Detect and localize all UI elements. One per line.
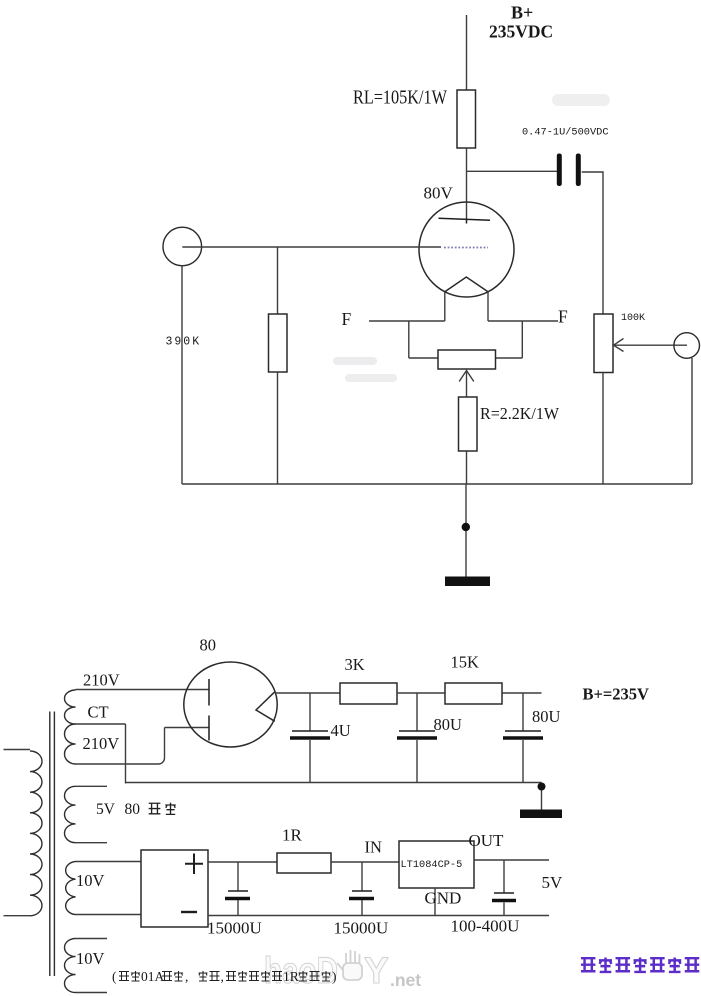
- wire 100-400U cap top: [503, 860, 505, 893]
- ground top section: [445, 577, 490, 587]
- capacitor C4 80U plate bottom: [503, 736, 543, 740]
- svg-text:80V: 80V: [424, 184, 454, 203]
- resistor R3 3K: [340, 683, 397, 704]
- wire F left: [369, 320, 445, 322]
- wire input terminal down: [181, 266, 183, 484]
- capacitor C1 0.47-1U plate left: [557, 154, 562, 187]
- svg-text:R=2.2K/1W: R=2.2K/1W: [480, 404, 560, 423]
- bridge plus sign: [185, 854, 203, 875]
- capacitor C5 15000U plate top: [228, 890, 248, 892]
- wire 15000U cap1 top: [237, 862, 239, 891]
- svg-text:01A: 01A: [141, 969, 165, 984]
- svg-text:80U: 80U: [434, 715, 463, 734]
- wire ground bus top section: [182, 483, 692, 485]
- svg-text:B+=235V: B+=235V: [583, 685, 650, 704]
- capacitor C3 80U plate bottom: [397, 736, 437, 740]
- wire 390K bottom: [277, 372, 279, 484]
- wiper arrow of 100K pot: [614, 339, 624, 352]
- faint smudge 1: [552, 94, 610, 106]
- rectifier V2 filament: [256, 692, 275, 722]
- transformer T1 primary winding: [30, 751, 42, 916]
- wire bus to ground 2: [541, 783, 543, 811]
- bridge minus sign: [181, 911, 197, 913]
- resistor RL1 105K/1W: [457, 90, 476, 148]
- wire filament leg right: [487, 292, 489, 321]
- capacitor C4 80U plate top: [505, 730, 541, 732]
- resistor R5 1R: [277, 853, 331, 873]
- wire 3K to 15K: [397, 692, 445, 694]
- capacitor C7 100-400U plate bottom: [492, 899, 516, 902]
- wire plate to coupling cap: [467, 170, 558, 172]
- svg-text:3K: 3K: [345, 655, 365, 674]
- svg-text:.net: .net: [390, 970, 421, 990]
- wire wiper to R: [466, 372, 468, 398]
- wire RL to plate: [466, 148, 468, 220]
- faint smudge 2: [333, 357, 377, 365]
- capacitor C7 100-400U plate top: [494, 892, 514, 894]
- watermark haoDIY.net: [264, 950, 421, 991]
- wire HV ground bus: [126, 782, 542, 784]
- capacitor C2 4U plate top: [292, 730, 328, 732]
- wire 15000U cap2 top: [361, 862, 363, 891]
- svg-text:5V: 5V: [96, 801, 116, 818]
- wire 5V lead top: [76, 785, 108, 787]
- wire grid input: [182, 246, 441, 248]
- potentiometer RH hum balance: [438, 350, 496, 369]
- svg-text:1R: 1R: [283, 969, 299, 984]
- site name purple: [581, 957, 699, 972]
- wire 4U cap bottom: [309, 740, 311, 783]
- svg-text:390K: 390K: [166, 336, 202, 349]
- regulator U1 LT1084CP-5: [399, 841, 474, 888]
- wire 80U cap2 top: [522, 693, 524, 731]
- wire B+ feed: [466, 15, 468, 90]
- wire 15K to B+: [502, 692, 542, 694]
- input terminal J1: [163, 227, 202, 266]
- svg-text:CT: CT: [88, 703, 109, 722]
- wire 210V top to plate: [76, 689, 210, 691]
- wire CT lead: [76, 723, 126, 725]
- svg-text:235VDC: 235VDC: [489, 22, 553, 42]
- svg-text:): ): [332, 969, 337, 984]
- svg-text:IN: IN: [365, 838, 382, 857]
- svg-text:15000U: 15000U: [207, 919, 262, 938]
- wire output terminal down: [691, 358, 693, 484]
- wire filament leg left: [444, 292, 446, 321]
- transformer T1 10V winding 1: [66, 862, 76, 915]
- wire 210V bottom lead: [76, 758, 165, 764]
- transformer T1 HV winding lower half: [65, 724, 76, 764]
- svg-text:10V: 10V: [76, 949, 105, 968]
- capacitor C6 15000U plate bottom: [349, 897, 374, 900]
- ground HV section: [520, 810, 562, 819]
- svg-text:10V: 10V: [76, 871, 105, 890]
- resistor R2 2.2K/1W: [459, 397, 478, 451]
- wire bus to ground: [465, 484, 467, 577]
- capacitor C5 15000U plate bottom: [225, 897, 250, 900]
- wire bridge output to 1R: [208, 861, 277, 863]
- wire to lower plate: [165, 727, 210, 729]
- svg-text:haoD: haoD: [264, 950, 338, 991]
- wire cap to pot: [582, 172, 603, 314]
- svg-text:0.47-1U/500VDC: 0.47-1U/500VDC: [522, 127, 609, 139]
- transformer T1 core line 2: [53, 712, 55, 977]
- wire 10V lead bottom to bridge: [76, 914, 142, 916]
- output terminal J2: [674, 333, 700, 359]
- wire 100-400U cap bottom: [503, 903, 505, 916]
- svg-text:Y: Y: [364, 950, 389, 991]
- svg-text:80U: 80U: [532, 707, 561, 726]
- svg-text:210V: 210V: [83, 734, 120, 753]
- wire 4U cap top: [309, 693, 311, 731]
- svg-text:100K: 100K: [621, 313, 645, 324]
- potentiometer RP1 100K: [594, 314, 613, 373]
- wire 10V2 lead top: [76, 938, 108, 940]
- svg-text:B+: B+: [511, 3, 533, 23]
- svg-text:OUT: OUT: [469, 831, 505, 850]
- wire hum pot right lead: [496, 357, 523, 359]
- wire F right: [488, 320, 558, 322]
- svg-text:4U: 4U: [331, 721, 351, 740]
- wire 10V lead top to bridge: [76, 861, 142, 863]
- wire R to bus: [466, 451, 468, 484]
- wire hum pot left lead: [409, 357, 438, 359]
- wire 5V lead bottom: [76, 842, 108, 844]
- bridge rectifier D1: [141, 850, 208, 927]
- svg-text:80: 80: [125, 801, 141, 818]
- wire 210V bottom up: [164, 728, 166, 759]
- note text bottom: [112, 969, 337, 984]
- label dengsi hanzi: [149, 803, 176, 815]
- svg-text:F: F: [558, 307, 568, 327]
- triode V1 envelope: [419, 202, 514, 297]
- svg-text:,: ,: [221, 969, 224, 984]
- svg-text:F: F: [342, 309, 352, 329]
- rectifier V2 plate 1: [208, 679, 210, 706]
- svg-text:100-400U: 100-400U: [451, 917, 520, 936]
- wire 1R to LT1084: [331, 861, 399, 863]
- transformer T1 primary lead bottom: [4, 915, 31, 917]
- rectifier V2 plate 2: [208, 716, 210, 741]
- wire rectifier output: [275, 692, 340, 695]
- node HV ground junction: [538, 783, 546, 791]
- svg-text:15K: 15K: [451, 653, 480, 672]
- wire wiper to output terminal: [614, 344, 688, 346]
- wire 390K top: [277, 247, 279, 314]
- node cathode junction: [462, 523, 470, 531]
- transformer T1 primary lead top: [4, 749, 31, 751]
- svg-text:1R: 1R: [282, 826, 303, 845]
- wire 80U cap1 bottom: [416, 740, 418, 783]
- svg-text:15000U: 15000U: [334, 919, 389, 938]
- wire 15000U cap1 bottom: [237, 900, 239, 916]
- capacitor C6 15000U plate top: [352, 890, 372, 892]
- transformer T1 HV winding upper half: [65, 690, 76, 724]
- rectifier tube V2 envelope: [184, 662, 277, 747]
- wire 15000U cap2 bottom: [361, 900, 363, 916]
- wire regulator GND pin: [434, 888, 436, 916]
- wire 5V ground bus: [208, 915, 549, 917]
- capacitor C3 80U plate top: [399, 730, 435, 732]
- wire 10V2 lead bottom: [76, 992, 108, 994]
- wire 80U cap2 bottom: [522, 740, 524, 783]
- wire pot bottom: [602, 373, 604, 485]
- resistor R1 390K: [269, 314, 288, 372]
- wiper arrow of hum pot: [459, 371, 474, 382]
- svg-text:80: 80: [200, 636, 217, 655]
- capacitor C2 4U plate bottom: [290, 736, 330, 740]
- resistor R4 15K: [445, 683, 502, 704]
- transformer T1 10V winding 2: [65, 939, 76, 993]
- triode V1 plate: [439, 218, 491, 223]
- wire 80U cap1 top: [416, 693, 418, 731]
- svg-text:(: (: [112, 969, 117, 984]
- wire drop to hum pot right: [521, 321, 523, 358]
- svg-text:210V: 210V: [83, 671, 120, 690]
- transformer T1 core line 1: [49, 712, 51, 977]
- svg-text:GND: GND: [425, 889, 462, 908]
- svg-text:,: ,: [185, 969, 188, 984]
- capacitor C1 plate right: [576, 154, 581, 187]
- wire CT down to bus: [125, 724, 127, 784]
- wire drop to hum pot left: [408, 321, 410, 358]
- transformer T1 5V winding: [65, 786, 76, 842]
- svg-text:RL=105K/1W: RL=105K/1W: [353, 88, 447, 109]
- wire regulator output 5V: [474, 859, 549, 861]
- svg-text:LT1084CP-5: LT1084CP-5: [401, 859, 463, 871]
- triode V1 filament tent: [445, 277, 488, 292]
- triode V1 grid (dotted): [444, 247, 488, 249]
- svg-text:5V: 5V: [542, 873, 564, 892]
